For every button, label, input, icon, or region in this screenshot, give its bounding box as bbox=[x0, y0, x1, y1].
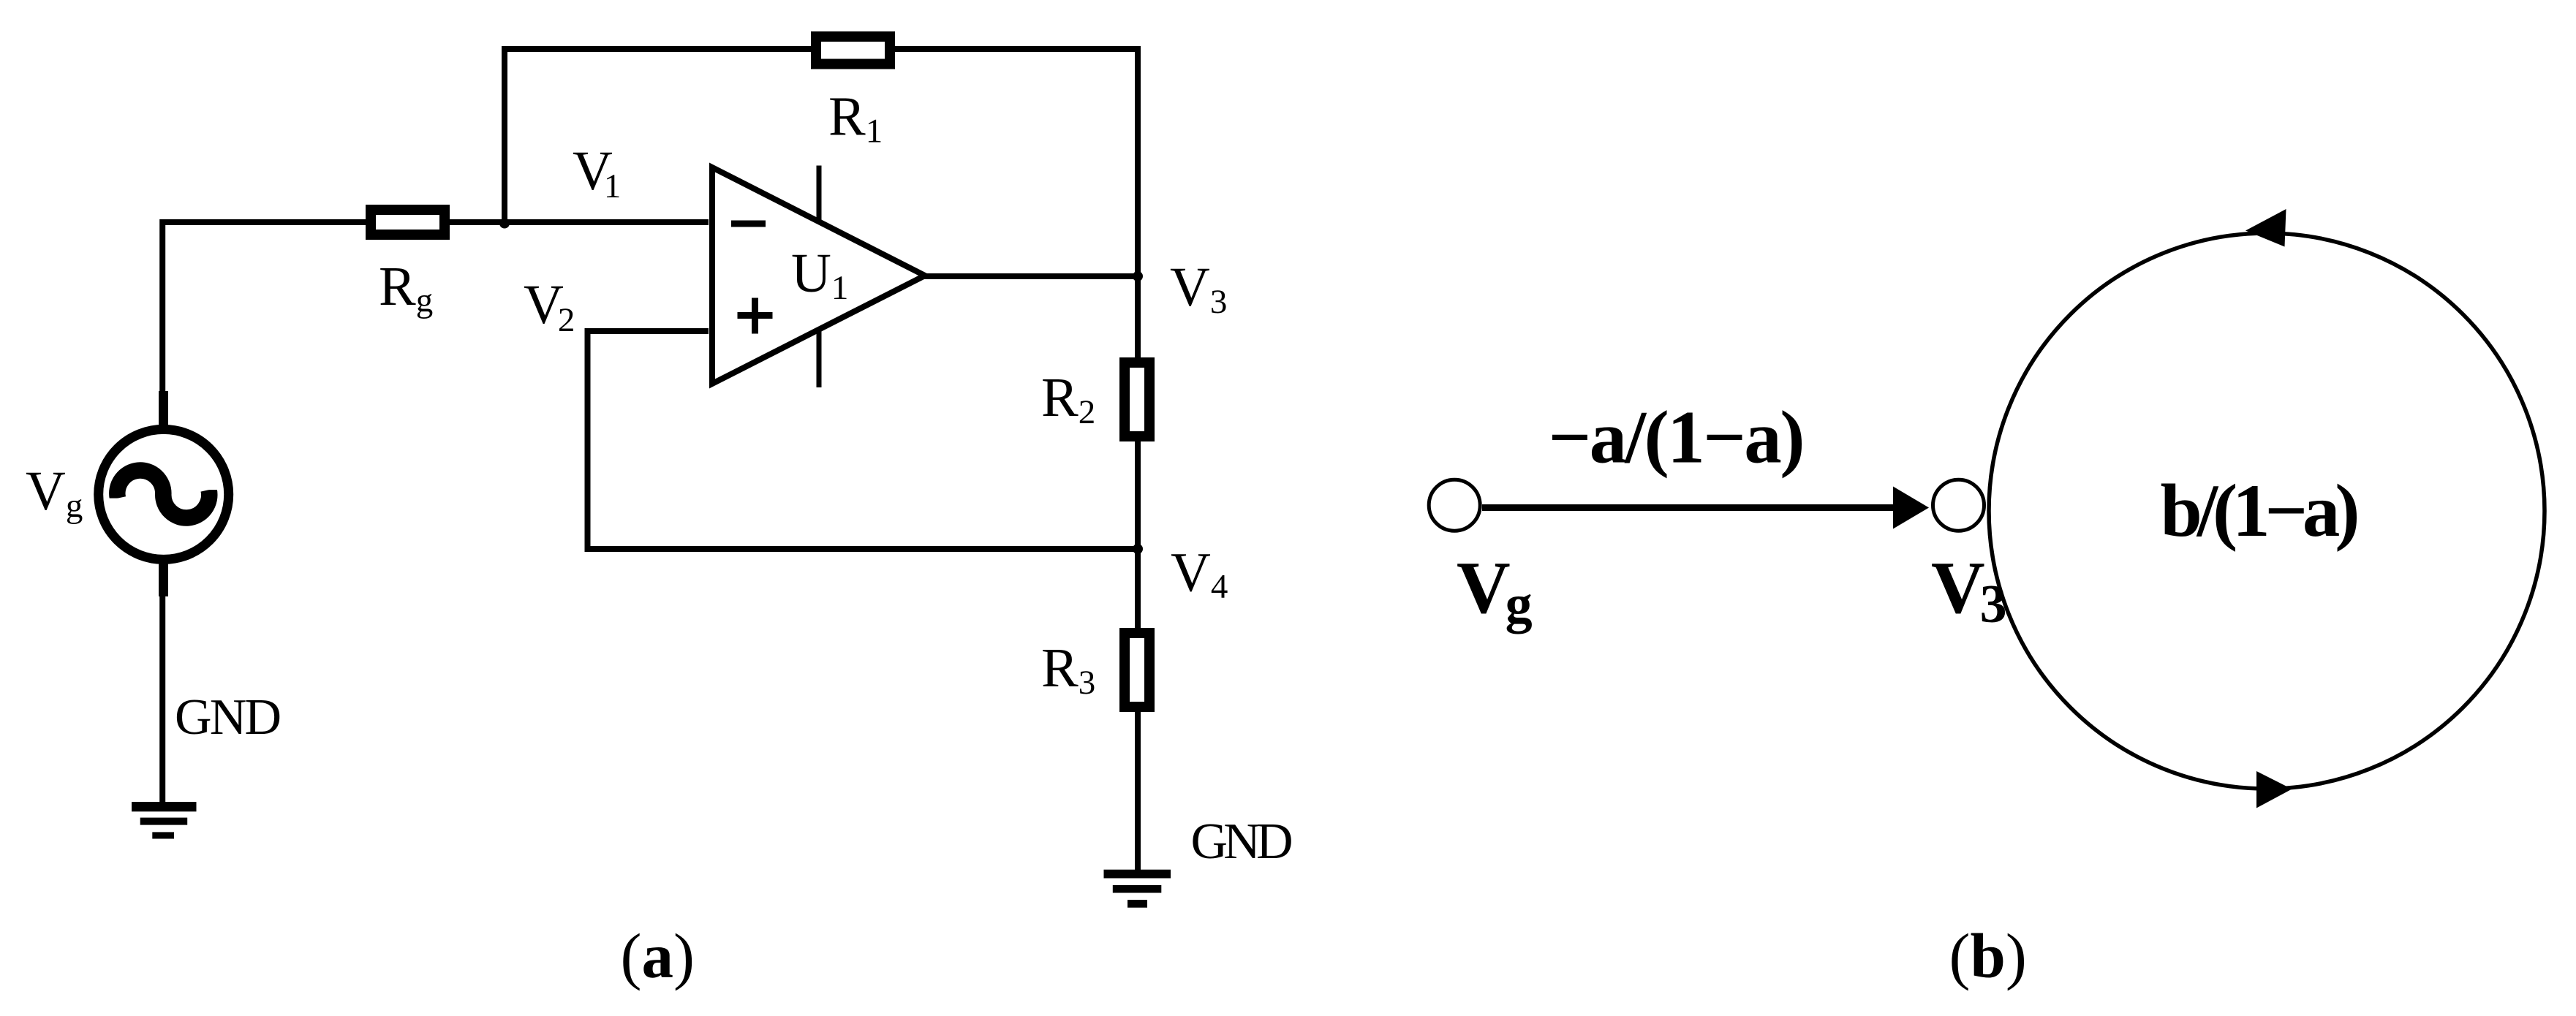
voltage source Vg bbox=[99, 391, 229, 596]
wire R2 to V4 bbox=[1135, 441, 1141, 629]
branch Vg to V3 gain -a/(1-a) bbox=[1482, 487, 1929, 529]
wire Rg to U1 inverting input bbox=[449, 219, 709, 225]
svg-text:GND: GND bbox=[175, 689, 282, 746]
wire top feedback right segment and riser to V3 bbox=[894, 49, 1138, 358]
svg-text:b/(1−a): b/(1−a) bbox=[2161, 469, 2360, 553]
resistor Rg bbox=[371, 210, 445, 235]
resistor R1 bbox=[816, 37, 890, 64]
wire Vg to Rg bbox=[162, 222, 366, 426]
self-loop b/(1-a) bbox=[1989, 209, 2545, 808]
node V3 junction dot bbox=[1133, 271, 1143, 281]
resistor R3 bbox=[1125, 633, 1149, 707]
svg-text:GND: GND bbox=[1191, 814, 1293, 870]
wire Vg to ground (left) bbox=[159, 563, 165, 803]
svg-text:−a/(1−a): −a/(1−a) bbox=[1549, 396, 1805, 479]
node Vg (signal-flow graph) bbox=[1429, 479, 1480, 531]
ground (left) bbox=[132, 802, 197, 838]
svg-text:(a): (a) bbox=[621, 920, 695, 991]
resistor R2 bbox=[1125, 363, 1149, 436]
op-amp U1 bbox=[712, 166, 925, 388]
ground (right) bbox=[1104, 870, 1171, 908]
node V3 (signal-flow graph) bbox=[1933, 479, 1984, 531]
wire V4 feedback to V2 non-inverting input bbox=[588, 331, 1138, 549]
node V4 junction dot bbox=[1133, 544, 1143, 554]
wire V1 riser and top feedback left segment bbox=[505, 49, 812, 222]
svg-text:(b): (b) bbox=[1949, 920, 2027, 991]
wire R3 to ground bbox=[1135, 711, 1141, 874]
wire U1 output to V3 bbox=[923, 273, 1138, 279]
node V1 junction dot bbox=[499, 219, 510, 229]
